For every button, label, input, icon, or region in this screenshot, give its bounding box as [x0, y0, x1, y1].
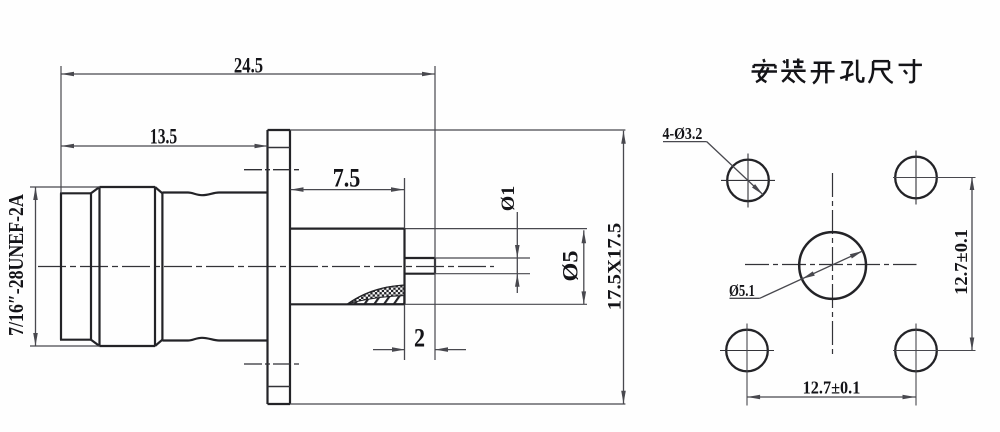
- centermark bottom-right hole + extensions: [915, 324, 917, 406]
- svg-text:12.7±0.1: 12.7±0.1: [951, 229, 970, 295]
- lower mounting hole centerline across flange: [244, 363, 301, 365]
- thread rear chamfer: [154, 187, 156, 346]
- centermark top-left hole: [721, 179, 775, 181]
- upper mounting hole centerline across flange: [244, 169, 301, 171]
- flange bottom edge: [268, 403, 291, 405]
- dimension O1 line: [516, 212, 518, 293]
- center contact pin bottom edge: [405, 273, 436, 275]
- svg-text:17.5X17.5: 17.5X17.5: [604, 223, 625, 311]
- centermark top-right hole + extension to right dim: [915, 151, 917, 205]
- connector body: left coupling face: [60, 193, 62, 339]
- dimension O5 line: [583, 230, 585, 304]
- dimension 12.7+-0.1 bottom: [747, 396, 915, 398]
- pin edge extension lines for O1 dim: [435, 257, 530, 259]
- center hole O5.1: [799, 232, 866, 299]
- connector body: step edge: [90, 193, 92, 339]
- svg-text:Ø5: Ø5: [558, 251, 583, 282]
- thread dimension line: [35, 187, 37, 346]
- dimension 12.7+-0.1 right (rotated): [971, 177, 973, 351]
- svg-text:7/16″-28UNEF-2A: 7/16″-28UNEF-2A: [5, 194, 29, 336]
- dimension 2 line (outside arrows): [373, 349, 405, 351]
- flange top extension line to 17.5 dim: [290, 129, 625, 131]
- main centerline (axis) of connector side view: [38, 266, 494, 268]
- mounting hole top-right: [895, 157, 937, 199]
- flange bottom extension line to 17.5 dim: [290, 403, 625, 405]
- mounting hole top-left (4-O3.2): [727, 160, 769, 202]
- svg-text:12.7±0.1: 12.7±0.1: [803, 378, 861, 398]
- svg-text:24.5: 24.5: [234, 53, 263, 78]
- title: mounting hole dimensions (CJK drawn as strokes): [752, 59, 777, 82]
- mounting hole bottom-left: [726, 330, 768, 372]
- mounting hole bottom-right: [895, 330, 937, 372]
- connector body: rear nut section top/bottom: [60, 192, 91, 194]
- thread section crest lines (7/16-28UNEF): [100, 186, 156, 188]
- hole pattern horizontal centerline: [745, 264, 917, 266]
- svg-text:7.5: 7.5: [333, 165, 361, 193]
- body barrel top line with shallow relief wave: [162, 193, 267, 196]
- dimension 7.5 line: [291, 189, 405, 191]
- extension line pin tip / 24.5 and 2 dims: [434, 66, 436, 360]
- center contact pin top edge: [405, 257, 436, 259]
- dimension 17.5X17.5 line: [623, 131, 625, 404]
- dimension 24.5 line: [61, 73, 435, 75]
- thread section chamfer edges: [91, 187, 100, 193]
- svg-text:13.5: 13.5: [150, 125, 177, 149]
- body barrel bottom line with shallow relief wave: [162, 338, 267, 341]
- flange corner lines: [268, 147, 291, 149]
- svg-text:Ø1: Ø1: [498, 186, 518, 211]
- hole pattern vertical centerline: [832, 173, 834, 354]
- insulator bore top line (O5): [290, 228, 405, 230]
- flange top edge: [268, 129, 291, 131]
- pin tip: [434, 258, 436, 274]
- square mounting flange: left edge: [266, 130, 268, 404]
- extension line left face: [60, 66, 62, 193]
- centermark bottom-left hole + extension to bottom dim: [720, 350, 774, 352]
- svg-text:2: 2: [414, 325, 425, 353]
- insulator front face / extension line: [404, 178, 406, 360]
- insulator bore bottom line (O5): [290, 303, 405, 305]
- thread extension lines: [30, 186, 100, 188]
- flange right edge: [289, 130, 291, 404]
- svg-text:4-Ø3.2: 4-Ø3.2: [663, 125, 703, 144]
- dimension 13.5 line: [61, 145, 268, 147]
